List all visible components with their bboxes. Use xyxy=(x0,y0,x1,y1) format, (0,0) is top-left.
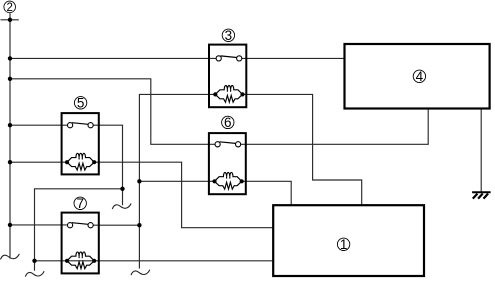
break symbol S2 relay7 coil branch xyxy=(25,271,44,277)
svg-text:1: 1 xyxy=(340,237,348,252)
node bus-relay5coil xyxy=(8,160,12,164)
node trunk-relay6coil xyxy=(137,179,141,183)
wire bus to relay6 switch xyxy=(10,79,218,145)
wire box4 to ground xyxy=(480,109,482,193)
svg-text:4: 4 xyxy=(416,69,424,84)
svg-text:3: 3 xyxy=(225,28,233,43)
wire stub at node 2 xyxy=(1,19,19,21)
relay R7 switch contacts xyxy=(68,223,94,228)
wire bus to relay7 switch xyxy=(10,224,70,226)
relay R6 switch contacts xyxy=(215,142,241,147)
wire relay5 switch down to node xyxy=(91,125,123,205)
relay R3 xyxy=(209,45,246,108)
label 1 xyxy=(337,237,349,252)
relay R5 xyxy=(62,113,99,174)
break symbol S4 trunk end xyxy=(131,270,150,276)
break symbol S1 bus end xyxy=(1,254,20,260)
ECU box U1 xyxy=(273,205,424,276)
wire relay6 coil to box1 top left xyxy=(242,181,291,205)
relay R6 coil xyxy=(212,172,243,189)
node bus-relay3 xyxy=(8,56,12,60)
wire node to relay7 coil branch xyxy=(35,189,123,271)
label 4 xyxy=(413,69,425,84)
wire relay3 coil to box1 top right xyxy=(243,94,362,205)
wire bus to relay5 coil xyxy=(10,161,67,163)
relay R3 switch contacts xyxy=(216,56,242,61)
node bus-relay6 xyxy=(8,77,12,81)
node trunk-relay7sw xyxy=(137,223,141,227)
svg-text:5: 5 xyxy=(77,95,85,110)
wire relay6 switch to box4 bottom xyxy=(239,109,428,145)
svg-text:2: 2 xyxy=(6,2,12,14)
wire relay7 coil row to box1 left lower xyxy=(35,260,274,262)
wire relay5 coil to box1 left upper xyxy=(95,162,273,228)
node bus-relay7sw xyxy=(8,223,12,227)
label 3 xyxy=(222,28,234,43)
node bus-2 xyxy=(8,18,12,22)
wire bus B+ vertical xyxy=(9,13,11,258)
relay R6 xyxy=(209,133,246,194)
label 6 xyxy=(222,115,234,130)
node relay7coil-branch xyxy=(32,259,36,263)
node relay5sw-branch xyxy=(120,187,124,191)
wire relay7 switch to vertical trunk xyxy=(91,224,140,226)
wire bus to relay3 switch xyxy=(10,57,219,59)
label 5 xyxy=(74,95,86,110)
svg-text:7: 7 xyxy=(76,196,84,211)
relay R5 coil xyxy=(65,153,96,170)
relay R5 switch contacts xyxy=(68,123,94,128)
relay R7 xyxy=(62,213,99,274)
label 7 xyxy=(74,196,86,211)
node bus-relay5sw xyxy=(8,123,12,127)
ground xyxy=(472,192,491,198)
break symbol S3 relay5 switch branch xyxy=(112,204,131,210)
wire trunk to relay6 coil xyxy=(139,180,214,182)
wire bus to relay5 switch xyxy=(10,124,70,126)
relay R7 coil xyxy=(65,252,96,269)
label 2 xyxy=(4,1,16,14)
node junction dots xyxy=(8,18,142,263)
wire vertical trunk xyxy=(139,94,215,268)
ECU box U4 xyxy=(345,44,490,109)
relay R3 coil xyxy=(213,86,244,103)
svg-text:6: 6 xyxy=(224,115,232,130)
wire relay3 switch to box4 xyxy=(239,57,344,59)
